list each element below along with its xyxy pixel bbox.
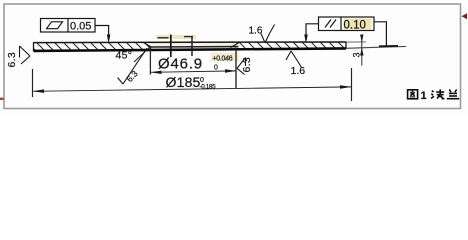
svg-text:1.6: 1.6 <box>291 65 306 77</box>
svg-text:6.3: 6.3 <box>6 52 18 68</box>
svg-text:3: 3 <box>352 52 362 57</box>
svg-text:1.6: 1.6 <box>249 26 263 37</box>
svg-text:0: 0 <box>214 65 218 72</box>
svg-text:0.05: 0.05 <box>70 21 91 33</box>
svg-text:45°: 45° <box>116 50 133 62</box>
svg-text:+0.046: +0.046 <box>213 56 233 63</box>
svg-text:0.10: 0.10 <box>344 20 366 32</box>
svg-text:Ø185: Ø185 <box>166 74 201 90</box>
svg-text:Ø46.9: Ø46.9 <box>158 56 203 73</box>
svg-text:-0.185: -0.185 <box>200 84 217 91</box>
svg-text:6.3: 6.3 <box>241 57 253 73</box>
svg-text:6.3: 6.3 <box>124 68 140 84</box>
svg-text:1: 1 <box>421 90 427 102</box>
